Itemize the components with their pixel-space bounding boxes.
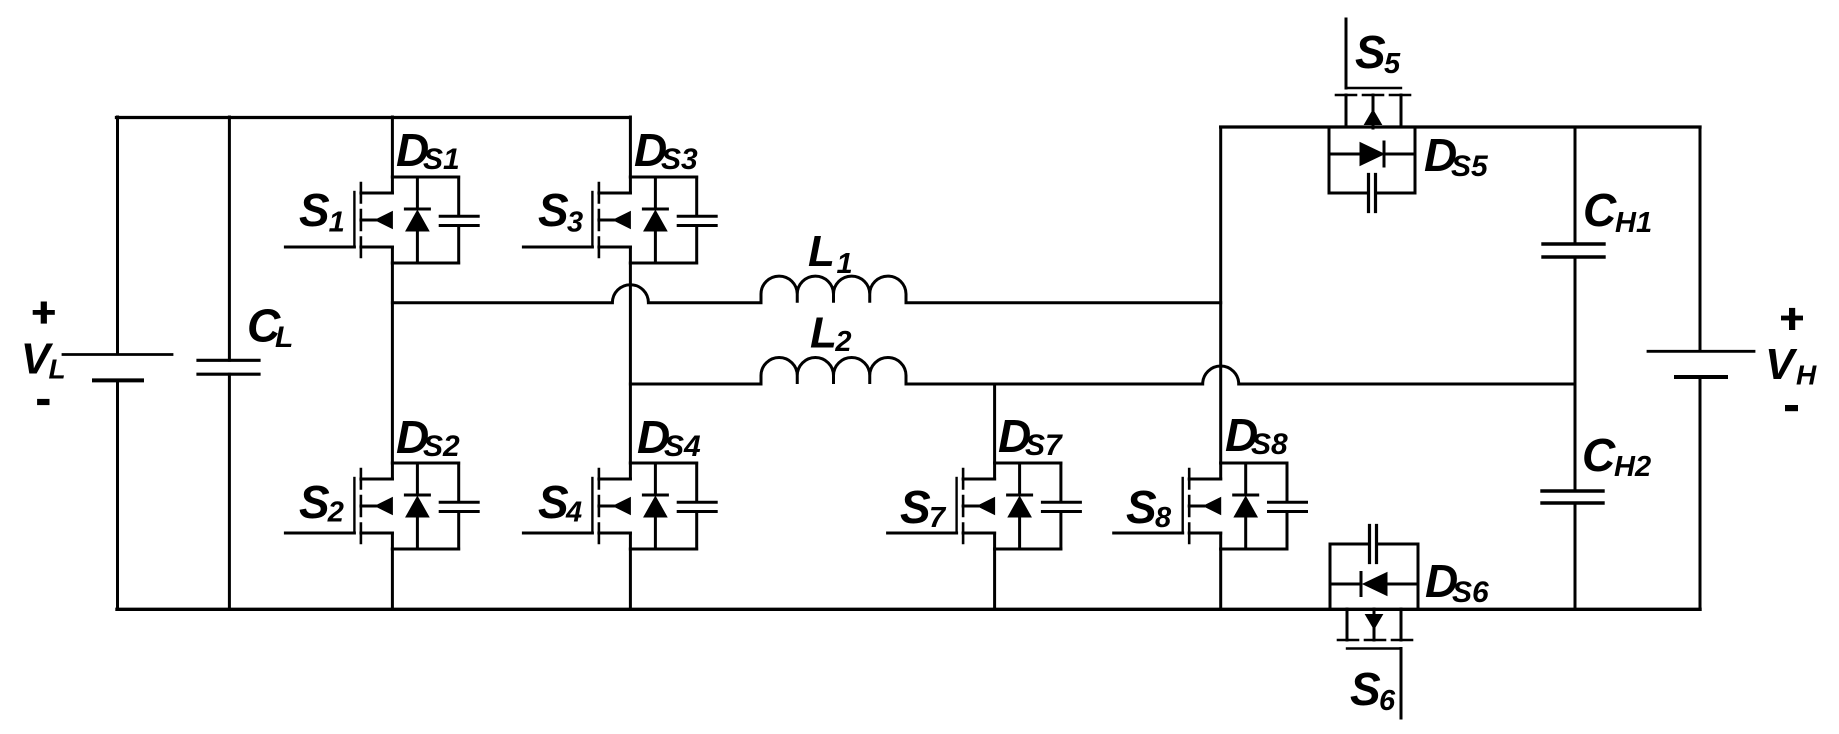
svg-text:S: S [1126,481,1157,533]
svg-text:1: 1 [329,207,345,239]
svg-text:S3: S3 [661,143,698,176]
svg-text:S7: S7 [1025,429,1063,462]
svg-text:V: V [1765,340,1798,389]
svg-text:L: L [275,321,293,354]
svg-text:S: S [538,184,569,236]
svg-text:7: 7 [929,502,947,534]
svg-text:S4: S4 [664,430,701,463]
svg-text:S: S [299,476,330,528]
svg-text:8: 8 [1155,502,1172,534]
svg-text:6: 6 [1379,685,1396,717]
svg-text:S5: S5 [1451,150,1489,183]
svg-text:H2: H2 [1614,451,1651,483]
svg-text:H1: H1 [1615,207,1652,239]
svg-text:4: 4 [565,497,582,529]
svg-text:S: S [299,184,330,236]
svg-text:S2: S2 [423,430,460,463]
svg-text:S6: S6 [1452,576,1489,609]
svg-text:C: C [1583,184,1617,236]
svg-text:S: S [538,476,569,528]
svg-text:5: 5 [1384,48,1401,80]
svg-text:S1: S1 [423,143,460,176]
svg-text:3: 3 [567,207,583,239]
svg-text:S8: S8 [1251,428,1288,461]
svg-text:L: L [808,227,835,276]
svg-text:H: H [1796,360,1817,391]
svg-text:1: 1 [837,248,853,280]
svg-text:S: S [1350,663,1381,715]
svg-text:L: L [49,354,66,385]
svg-text:L: L [810,309,837,358]
svg-text:S: S [900,481,931,533]
svg-text:2: 2 [327,497,344,529]
svg-text:C: C [1582,429,1616,481]
svg-text:S: S [1355,26,1386,78]
svg-text:2: 2 [834,326,851,358]
